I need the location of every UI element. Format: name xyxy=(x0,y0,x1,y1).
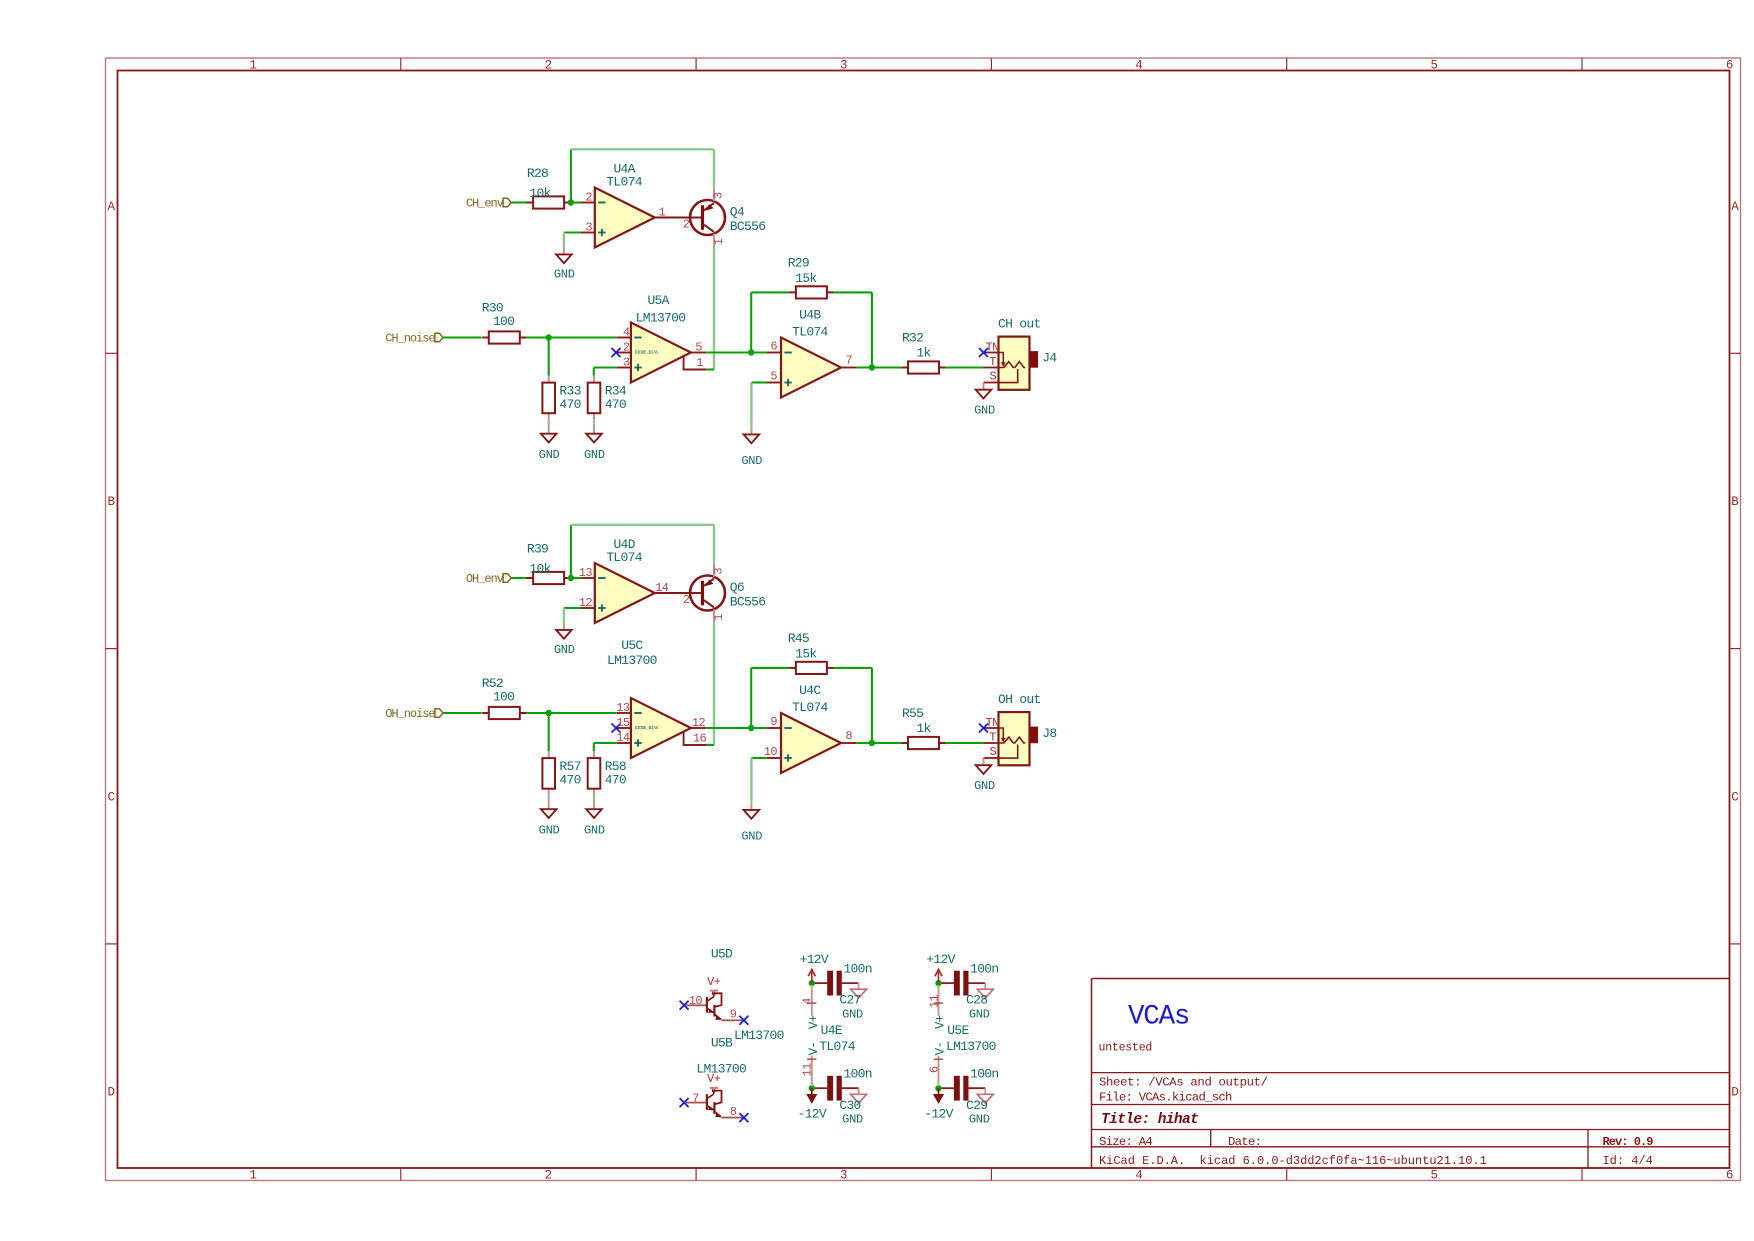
svg-text:DIODE_BIAS: DIODE_BIAS xyxy=(635,349,659,355)
svg-text:GND: GND xyxy=(842,1113,863,1127)
svg-text:7: 7 xyxy=(845,354,852,368)
svg-text:GND: GND xyxy=(584,824,605,838)
svg-text:GND: GND xyxy=(539,824,560,838)
svg-text:S: S xyxy=(990,745,997,759)
svg-text:V+: V+ xyxy=(707,1072,721,1086)
svg-text:LM13700: LM13700 xyxy=(636,311,686,326)
svg-text:C: C xyxy=(107,790,115,804)
svg-text:1: 1 xyxy=(712,238,726,245)
svg-text:3: 3 xyxy=(585,221,592,235)
svg-text:GND: GND xyxy=(969,1008,990,1022)
svg-text:2: 2 xyxy=(545,1169,553,1183)
svg-text:4: 4 xyxy=(1135,59,1143,73)
svg-text:4: 4 xyxy=(623,326,630,340)
svg-text:470: 470 xyxy=(559,397,580,412)
svg-text:GND: GND xyxy=(741,830,762,844)
svg-text:BC556: BC556 xyxy=(730,595,766,610)
svg-text:100n: 100n xyxy=(970,961,998,976)
svg-text:3: 3 xyxy=(712,568,726,575)
svg-text:D: D xyxy=(107,1086,115,1100)
svg-text:CH_noise: CH_noise xyxy=(385,332,435,346)
svg-text:Rev: 0.9: Rev: 0.9 xyxy=(1603,1135,1654,1149)
svg-text:13: 13 xyxy=(579,566,593,580)
svg-text:10: 10 xyxy=(764,745,778,759)
svg-text:1: 1 xyxy=(696,356,703,370)
svg-text:1k: 1k xyxy=(916,721,931,736)
svg-text:11: 11 xyxy=(927,995,941,1009)
svg-text:-12V: -12V xyxy=(798,1107,827,1122)
svg-text:470: 470 xyxy=(559,773,580,788)
svg-text:R57: R57 xyxy=(559,759,580,774)
svg-text:5: 5 xyxy=(1431,59,1439,73)
svg-text:GND: GND xyxy=(539,448,560,462)
svg-text:OH out: OH out xyxy=(998,692,1041,707)
svg-text:470: 470 xyxy=(605,397,626,412)
svg-text:7: 7 xyxy=(692,1091,699,1105)
svg-text:470: 470 xyxy=(605,773,626,788)
svg-text:+12V: +12V xyxy=(926,952,955,967)
svg-text:U4B: U4B xyxy=(799,308,821,323)
svg-text:8: 8 xyxy=(845,729,852,743)
svg-text:Q4: Q4 xyxy=(730,205,745,220)
svg-text:LM13700: LM13700 xyxy=(607,653,657,668)
svg-text:11: 11 xyxy=(801,1063,815,1077)
svg-text:3: 3 xyxy=(840,1169,848,1183)
svg-text:GND: GND xyxy=(554,268,575,282)
svg-text:R33: R33 xyxy=(559,383,580,398)
svg-text:1: 1 xyxy=(249,1169,257,1183)
svg-text:100n: 100n xyxy=(970,1067,998,1082)
svg-text:4: 4 xyxy=(1135,1169,1143,1183)
svg-text:U5D: U5D xyxy=(711,946,733,961)
svg-text:100n: 100n xyxy=(843,961,871,976)
svg-text:B: B xyxy=(107,495,115,509)
svg-text:D: D xyxy=(1731,1086,1739,1100)
svg-text:S: S xyxy=(990,370,997,384)
svg-text:C29: C29 xyxy=(966,1098,987,1113)
svg-text:-12V: -12V xyxy=(924,1107,953,1122)
svg-text:R29: R29 xyxy=(788,256,809,271)
svg-text:100n: 100n xyxy=(843,1067,871,1082)
svg-text:BC556: BC556 xyxy=(730,219,766,234)
svg-text:File: VCAs.kicad_sch: File: VCAs.kicad_sch xyxy=(1099,1090,1232,1104)
svg-text:V+: V+ xyxy=(934,1015,948,1029)
svg-text:A: A xyxy=(1731,200,1739,214)
svg-text:15k: 15k xyxy=(795,646,817,661)
svg-text:9: 9 xyxy=(770,715,777,729)
svg-text:Sheet: /VCAs and output/: Sheet: /VCAs and output/ xyxy=(1099,1075,1268,1089)
svg-text:1: 1 xyxy=(712,614,726,621)
svg-text:13: 13 xyxy=(616,701,630,715)
svg-text:TN: TN xyxy=(986,716,1000,730)
svg-text:C: C xyxy=(1731,790,1739,804)
svg-text:4: 4 xyxy=(801,998,815,1005)
svg-text:12: 12 xyxy=(692,716,706,730)
svg-text:KiCad E.D.A. kicad 6.0.0-d3dd: KiCad E.D.A. kicad 6.0.0-d3dd2cf0fa~116~… xyxy=(1099,1154,1487,1168)
svg-text:8: 8 xyxy=(730,1105,737,1119)
svg-text:Date:: Date: xyxy=(1228,1135,1261,1149)
svg-text:TL074: TL074 xyxy=(606,175,642,190)
svg-text:GND: GND xyxy=(584,448,605,462)
svg-text:2: 2 xyxy=(683,218,690,232)
svg-text:5: 5 xyxy=(770,370,777,384)
svg-text:GND: GND xyxy=(741,454,762,468)
svg-text:TL074: TL074 xyxy=(819,1039,855,1054)
svg-text:1: 1 xyxy=(249,59,257,73)
svg-text:R34: R34 xyxy=(605,383,627,398)
svg-text:GND: GND xyxy=(974,404,995,418)
svg-text:GND: GND xyxy=(974,779,995,793)
svg-text:OH_noise: OH_noise xyxy=(385,707,435,721)
svg-text:U5C: U5C xyxy=(621,638,643,653)
svg-text:B: B xyxy=(1731,495,1739,509)
svg-text:3: 3 xyxy=(623,356,630,370)
svg-text:V-: V- xyxy=(934,1042,948,1056)
svg-text:+12V: +12V xyxy=(800,952,829,967)
svg-text:U5A: U5A xyxy=(647,293,669,308)
svg-text:R39: R39 xyxy=(527,541,548,556)
svg-text:C28: C28 xyxy=(966,993,987,1008)
svg-text:14: 14 xyxy=(616,731,630,745)
svg-text:V-: V- xyxy=(807,1042,821,1056)
svg-text:LM13700: LM13700 xyxy=(946,1039,996,1054)
svg-text:U4C: U4C xyxy=(799,683,821,698)
svg-text:LM13700: LM13700 xyxy=(696,1062,746,1077)
svg-text:15: 15 xyxy=(616,716,630,730)
svg-text:1k: 1k xyxy=(916,345,931,360)
svg-text:10: 10 xyxy=(689,994,703,1008)
svg-text:VCAs: VCAs xyxy=(1128,1002,1189,1033)
svg-text:LM13700: LM13700 xyxy=(734,1028,784,1043)
svg-text:U4E: U4E xyxy=(821,1023,843,1038)
svg-text:9: 9 xyxy=(730,1008,737,1022)
svg-text:U5B: U5B xyxy=(711,1035,733,1050)
svg-text:6: 6 xyxy=(927,1066,941,1073)
svg-text:V+: V+ xyxy=(807,1015,821,1029)
svg-text:T: T xyxy=(989,730,996,744)
svg-text:TL074: TL074 xyxy=(606,550,642,565)
svg-text:5: 5 xyxy=(695,340,702,354)
svg-text:GND: GND xyxy=(842,1008,863,1022)
svg-text:6: 6 xyxy=(1726,1169,1734,1183)
svg-text:3: 3 xyxy=(840,59,848,73)
svg-text:R52: R52 xyxy=(482,676,503,691)
svg-text:3: 3 xyxy=(712,192,726,199)
svg-text:C30: C30 xyxy=(839,1098,860,1113)
svg-text:2: 2 xyxy=(683,593,690,607)
svg-text:6: 6 xyxy=(770,340,777,354)
svg-text:CH out: CH out xyxy=(998,317,1041,332)
svg-text:U5E: U5E xyxy=(947,1023,969,1038)
svg-text:C27: C27 xyxy=(839,993,860,1008)
svg-text:CH_env: CH_env xyxy=(466,197,504,211)
svg-text:Title: hihat: Title: hihat xyxy=(1101,1112,1198,1128)
svg-text:Size: A4: Size: A4 xyxy=(1099,1135,1152,1149)
svg-text:10k: 10k xyxy=(529,561,551,576)
svg-text:TL074: TL074 xyxy=(792,700,828,715)
svg-text:6: 6 xyxy=(1726,59,1734,73)
svg-text:100: 100 xyxy=(493,314,514,329)
svg-text:10k: 10k xyxy=(529,186,551,201)
svg-text:R45: R45 xyxy=(788,631,809,646)
svg-text:R58: R58 xyxy=(605,759,626,774)
svg-text:R28: R28 xyxy=(527,166,548,181)
svg-text:2: 2 xyxy=(585,191,592,205)
svg-text:R55: R55 xyxy=(902,706,923,721)
svg-text:2: 2 xyxy=(545,59,553,73)
svg-text:12: 12 xyxy=(579,596,593,610)
svg-text:DIODE_BIAS: DIODE_BIAS xyxy=(635,725,659,731)
svg-text:TN: TN xyxy=(986,341,1000,355)
svg-text:T: T xyxy=(989,355,996,369)
svg-text:untested: untested xyxy=(1099,1042,1153,1055)
svg-text:R30: R30 xyxy=(482,300,503,315)
svg-text:GND: GND xyxy=(969,1113,990,1127)
svg-text:2: 2 xyxy=(623,341,630,355)
svg-text:R32: R32 xyxy=(902,331,923,346)
svg-text:5: 5 xyxy=(1431,1169,1439,1183)
svg-text:V+: V+ xyxy=(707,975,721,989)
svg-text:GND: GND xyxy=(554,643,575,657)
svg-text:15k: 15k xyxy=(795,271,817,286)
svg-text:J8: J8 xyxy=(1042,726,1056,741)
svg-text:Id: 4/4: Id: 4/4 xyxy=(1603,1154,1653,1168)
svg-text:J4: J4 xyxy=(1042,351,1057,366)
svg-text:OH_env: OH_env xyxy=(466,572,504,586)
svg-text:TL074: TL074 xyxy=(792,325,828,340)
svg-text:100: 100 xyxy=(493,690,514,705)
svg-text:Q6: Q6 xyxy=(730,580,744,595)
svg-text:16: 16 xyxy=(693,732,707,746)
svg-text:A: A xyxy=(107,200,115,214)
